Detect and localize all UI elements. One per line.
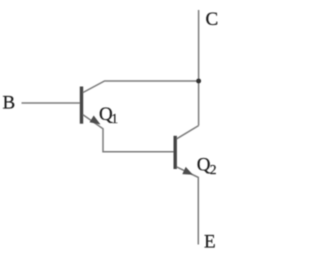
- transistor Q2 base bar: [174, 136, 177, 169]
- wire: Q1 emitter down to Q2 base: [83, 115, 174, 152]
- wire: Q2 collector up to rail: [177, 126, 199, 139]
- svg-text:Q: Q: [197, 155, 211, 176]
- junction dot at collector node: [196, 79, 201, 84]
- transistor Q2 emitter arrow: [182, 167, 193, 175]
- wire: collector rail to terminal C: [198, 10, 200, 126]
- wire: Q2 emitter down to terminal E: [177, 167, 199, 245]
- transistor Q1 emitter arrow: [90, 116, 101, 125]
- wire: Q1 collector up to node C rail: [83, 81, 199, 93]
- svg-text:C: C: [206, 9, 219, 30]
- svg-text:2: 2: [210, 162, 217, 177]
- wire: base lead into Q1: [22, 102, 80, 104]
- transistor Q1 base bar: [80, 87, 83, 124]
- svg-text:B: B: [3, 93, 16, 114]
- svg-text:E: E: [204, 232, 216, 253]
- svg-text:1: 1: [111, 111, 118, 126]
